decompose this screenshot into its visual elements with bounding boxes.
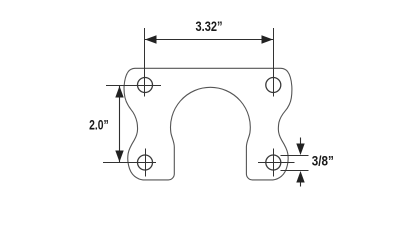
center mark horizontal bottom-right hole	[258, 162, 295, 164]
leader stem below 3/8in dimension	[300, 180, 302, 187]
arrowhead right of 3.32in dimension	[262, 35, 274, 43]
svg-text:2.0”: 2.0”	[89, 118, 109, 133]
svg-text:3/8”: 3/8”	[312, 153, 334, 168]
plate outline with arch cutout	[124, 68, 292, 180]
hole top-left	[138, 78, 153, 93]
dimension line 3.32in	[145, 39, 273, 41]
center mark horizontal bottom-left hole (also 2.0in bottom extension line)	[103, 162, 156, 164]
arrowhead top of 2.0in dimension	[115, 86, 123, 98]
extension line bottom of 3/8in dimension	[281, 170, 309, 172]
arrowhead bottom of 2.0in dimension	[115, 151, 123, 163]
center mark vertical bottom-left hole	[145, 149, 147, 177]
extension line right of 3.32in dimension (through top-right hole)	[273, 28, 275, 97]
center mark vertical bottom-right hole	[273, 149, 275, 177]
dimension line 2.0in	[119, 86, 121, 162]
arrowhead pointing down at 3/8in dimension	[296, 144, 304, 156]
hole top-right	[266, 78, 281, 93]
svg-text:3.32”: 3.32”	[196, 19, 223, 34]
leader stem above 3/8in dimension	[300, 138, 302, 147]
center mark horizontal top-left hole (also 2.0in top extension line)	[106, 85, 161, 87]
arrowhead pointing up at 3/8in dimension	[296, 171, 304, 183]
hole bottom-left	[138, 155, 153, 170]
hole bottom-right	[266, 155, 281, 170]
arrowhead left of 3.32in dimension	[145, 35, 157, 43]
extension line top of 3/8in dimension	[281, 155, 309, 157]
extension line left of 3.32in dimension (through top-left hole)	[144, 28, 146, 97]
